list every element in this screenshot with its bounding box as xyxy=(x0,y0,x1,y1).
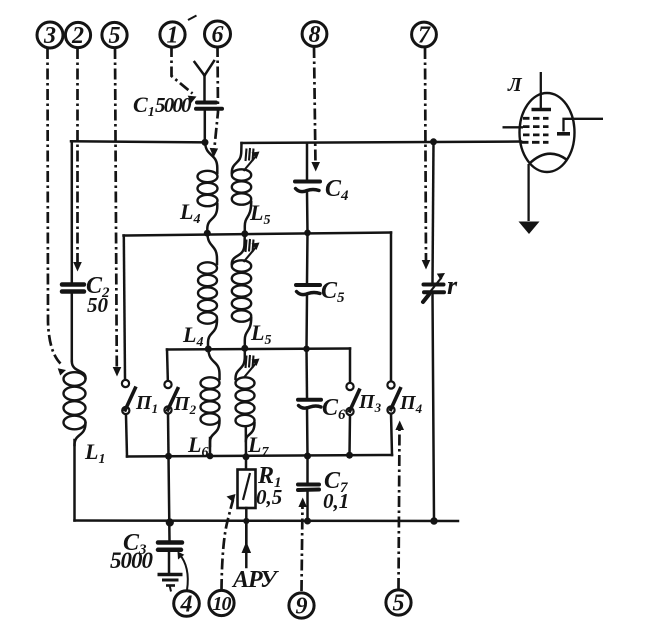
svg-text:C5: C5 xyxy=(321,278,345,306)
svg-text:АРУ: АРУ xyxy=(231,567,279,593)
svg-text:6: 6 xyxy=(212,22,224,48)
svg-text:4: 4 xyxy=(180,592,193,618)
svg-text:C6: C6 xyxy=(322,395,346,423)
svg-text:1: 1 xyxy=(167,23,179,49)
svg-text:L5: L5 xyxy=(249,200,270,228)
svg-text:r: r xyxy=(447,271,458,300)
svg-text:9: 9 xyxy=(296,594,308,620)
svg-text:5000: 5000 xyxy=(155,93,192,117)
svg-text:L7: L7 xyxy=(247,432,269,460)
svg-text:L5: L5 xyxy=(250,320,271,348)
svg-text:L1: L1 xyxy=(84,439,105,467)
svg-text:C1: C1 xyxy=(133,92,155,120)
svg-text:П3: П3 xyxy=(358,391,382,415)
svg-text:8: 8 xyxy=(309,22,321,48)
svg-text:5: 5 xyxy=(393,591,405,617)
svg-text:5: 5 xyxy=(109,23,121,49)
svg-text:2: 2 xyxy=(71,23,84,49)
svg-text:10: 10 xyxy=(213,593,232,615)
svg-text:3: 3 xyxy=(43,23,56,49)
svg-text:7: 7 xyxy=(418,23,431,49)
svg-text:П4: П4 xyxy=(399,392,423,416)
svg-text:L6: L6 xyxy=(187,432,208,460)
svg-text:C4: C4 xyxy=(325,176,349,204)
svg-text:0,5: 0,5 xyxy=(256,485,282,509)
svg-text:П1: П1 xyxy=(135,392,158,416)
svg-text:L4: L4 xyxy=(182,322,203,350)
svg-text:П2: П2 xyxy=(173,393,197,417)
svg-text:0,1: 0,1 xyxy=(323,489,349,513)
svg-text:5000: 5000 xyxy=(110,548,154,573)
svg-text:50: 50 xyxy=(87,293,109,317)
svg-text:Л: Л xyxy=(507,74,523,96)
